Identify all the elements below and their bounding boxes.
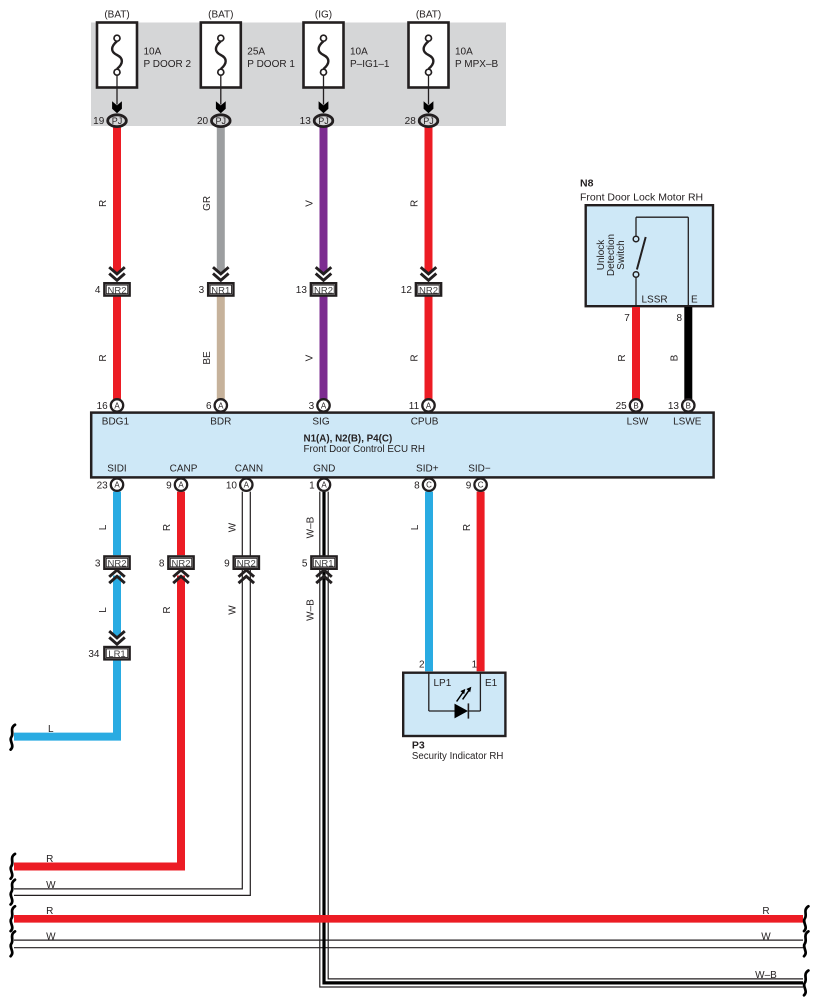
svg-text:34: 34 <box>88 649 100 660</box>
svg-text:R: R <box>46 854 53 865</box>
svg-text:(BAT): (BAT) <box>416 10 441 21</box>
svg-text:10A: 10A <box>144 46 162 57</box>
svg-text:L: L <box>410 524 421 530</box>
svg-text:(IG): (IG) <box>315 10 332 21</box>
svg-text:8: 8 <box>414 480 420 491</box>
svg-text:C: C <box>426 481 432 490</box>
svg-text:R: R <box>762 906 769 917</box>
svg-text:1: 1 <box>309 480 315 491</box>
svg-text:E: E <box>691 294 698 305</box>
svg-text:V: V <box>305 200 316 207</box>
svg-text:5: 5 <box>302 558 308 569</box>
svg-text:BE: BE <box>202 351 213 365</box>
svg-text:B: B <box>670 354 681 361</box>
svg-text:CANN: CANN <box>235 464 263 475</box>
svg-text:13: 13 <box>668 401 680 412</box>
svg-text:V: V <box>305 354 316 361</box>
svg-text:NR1: NR1 <box>314 559 333 570</box>
svg-text:A: A <box>321 401 327 410</box>
svg-text:W–B: W–B <box>305 599 316 621</box>
svg-text:7: 7 <box>624 313 630 324</box>
svg-text:LP1: LP1 <box>434 678 452 689</box>
svg-text:L: L <box>48 724 54 735</box>
svg-text:19: 19 <box>93 116 105 127</box>
svg-text:R: R <box>162 606 173 613</box>
svg-text:L: L <box>98 607 109 613</box>
svg-text:NR2: NR2 <box>171 559 190 570</box>
svg-text:16: 16 <box>97 401 109 412</box>
svg-text:P DOOR 1: P DOOR 1 <box>247 59 295 70</box>
svg-text:A: A <box>114 401 120 410</box>
svg-text:A: A <box>426 401 432 410</box>
svg-text:8: 8 <box>159 558 165 569</box>
svg-text:L: L <box>98 524 109 530</box>
svg-text:10A: 10A <box>350 46 368 57</box>
svg-text:LSSR: LSSR <box>642 294 668 305</box>
svg-text:PJ: PJ <box>318 116 329 126</box>
svg-text:CANP: CANP <box>170 464 198 475</box>
svg-text:4: 4 <box>95 285 101 296</box>
svg-text:13: 13 <box>300 116 312 127</box>
svg-text:W: W <box>228 522 239 532</box>
svg-text:W: W <box>761 932 771 943</box>
svg-text:PJ: PJ <box>112 116 123 126</box>
svg-text:12: 12 <box>401 285 413 296</box>
svg-text:W–B: W–B <box>305 516 316 538</box>
svg-text:NR2: NR2 <box>107 285 126 296</box>
svg-text:Front Door Control ECU RH: Front Door Control ECU RH <box>304 444 425 455</box>
svg-text:A: A <box>244 481 250 490</box>
svg-text:25: 25 <box>616 401 628 412</box>
svg-text:B: B <box>633 401 638 410</box>
svg-text:6: 6 <box>206 401 212 412</box>
svg-text:9: 9 <box>466 480 472 491</box>
svg-text:LSWE: LSWE <box>673 416 702 427</box>
svg-text:25A: 25A <box>247 46 265 57</box>
svg-text:(BAT): (BAT) <box>104 10 129 21</box>
svg-text:A: A <box>321 481 327 490</box>
svg-text:R: R <box>410 354 421 361</box>
svg-text:Security Indicator RH: Security Indicator RH <box>412 751 504 762</box>
svg-text:R: R <box>410 200 421 207</box>
svg-text:LR1: LR1 <box>108 649 125 660</box>
svg-text:A: A <box>178 481 184 490</box>
svg-text:A: A <box>218 401 224 410</box>
svg-text:PJ: PJ <box>216 116 227 126</box>
svg-text:R: R <box>98 200 109 207</box>
svg-text:R: R <box>98 354 109 361</box>
svg-text:R: R <box>46 906 53 917</box>
svg-text:N8: N8 <box>580 178 594 190</box>
svg-text:R: R <box>617 354 628 361</box>
svg-text:13: 13 <box>296 285 308 296</box>
svg-text:3: 3 <box>199 285 205 296</box>
svg-text:GND: GND <box>313 464 335 475</box>
svg-text:P DOOR 2: P DOOR 2 <box>144 59 192 70</box>
svg-text:W: W <box>228 605 239 615</box>
svg-text:LSW: LSW <box>627 416 649 427</box>
svg-text:28: 28 <box>405 116 417 127</box>
svg-text:GR: GR <box>202 196 213 211</box>
svg-text:SID−: SID− <box>468 464 491 475</box>
svg-text:NR2: NR2 <box>237 559 256 570</box>
svg-text:PJ: PJ <box>423 116 434 126</box>
svg-text:A: A <box>114 481 120 490</box>
svg-text:SID+: SID+ <box>416 464 439 475</box>
svg-text:20: 20 <box>197 116 209 127</box>
svg-text:P MPX–B: P MPX–B <box>455 59 498 70</box>
svg-text:SIDI: SIDI <box>107 464 126 475</box>
svg-text:8: 8 <box>677 313 683 324</box>
svg-text:R: R <box>162 524 173 531</box>
svg-text:NR1: NR1 <box>211 285 230 296</box>
svg-text:3: 3 <box>309 401 315 412</box>
svg-text:P3: P3 <box>412 739 425 751</box>
svg-text:W–B: W–B <box>755 970 777 981</box>
svg-text:SIG: SIG <box>312 416 329 427</box>
svg-text:3: 3 <box>95 558 101 569</box>
svg-text:23: 23 <box>97 480 109 491</box>
svg-text:E1: E1 <box>485 678 498 689</box>
svg-text:11: 11 <box>409 401 420 412</box>
svg-text:NR2: NR2 <box>107 559 126 570</box>
svg-text:1: 1 <box>472 659 478 670</box>
svg-text:10A: 10A <box>455 46 473 57</box>
svg-text:10: 10 <box>226 480 238 491</box>
svg-text:9: 9 <box>166 480 172 491</box>
svg-text:2: 2 <box>419 659 425 670</box>
svg-text:BDR: BDR <box>210 416 231 427</box>
svg-text:CPUB: CPUB <box>411 416 439 427</box>
svg-text:P–IG1–1: P–IG1–1 <box>350 59 390 70</box>
svg-text:N1(A), N2(B), P4(C): N1(A), N2(B), P4(C) <box>304 434 393 445</box>
svg-text:NR2: NR2 <box>419 285 438 296</box>
svg-text:B: B <box>686 401 691 410</box>
svg-text:W: W <box>46 932 56 943</box>
svg-text:(BAT): (BAT) <box>208 10 233 21</box>
svg-text:C: C <box>478 481 484 490</box>
svg-text:Front Door Lock Motor RH: Front Door Lock Motor RH <box>580 191 703 203</box>
svg-text:9: 9 <box>224 558 230 569</box>
svg-text:Switch: Switch <box>616 240 627 269</box>
svg-text:NR2: NR2 <box>314 285 333 296</box>
svg-text:R: R <box>462 524 473 531</box>
svg-text:W: W <box>46 880 56 891</box>
svg-text:BDG1: BDG1 <box>102 416 130 427</box>
